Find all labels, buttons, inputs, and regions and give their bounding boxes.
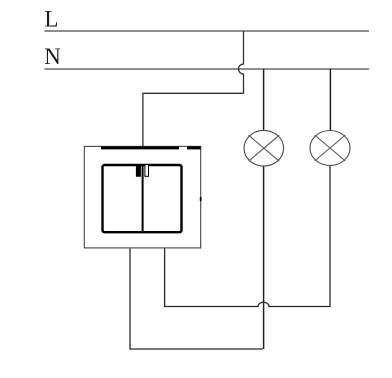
switch indicator filled	[136, 165, 141, 177]
lamp EL1	[244, 130, 284, 166]
switch indicator outline	[145, 165, 149, 177]
switch inner rocker frame	[103, 165, 182, 232]
lamp EL2	[310, 131, 350, 166]
switch outer box right tick	[200, 197, 202, 201]
wire from N to lamp EL2 top	[329, 69, 331, 131]
wire N line	[45, 68, 370, 70]
switch outer box	[84, 146, 200, 248]
wire from N to lamp EL1 top	[263, 69, 265, 131]
wire L line	[45, 30, 370, 32]
svg-text:N: N	[44, 44, 61, 69]
wire switch right terminal to lamp EL2 with hop	[165, 166, 330, 307]
wire from L to switch with hop over N	[143, 31, 244, 146]
switch rocker divider	[142, 165, 144, 232]
switch plate top thick bar left	[101, 146, 179, 149]
switch plate top thick bar right	[187, 146, 201, 149]
wire lamp EL1 bottom down	[263, 166, 265, 349]
wire switch left terminal to bottom run	[130, 248, 263, 349]
svg-text:L: L	[44, 7, 58, 32]
